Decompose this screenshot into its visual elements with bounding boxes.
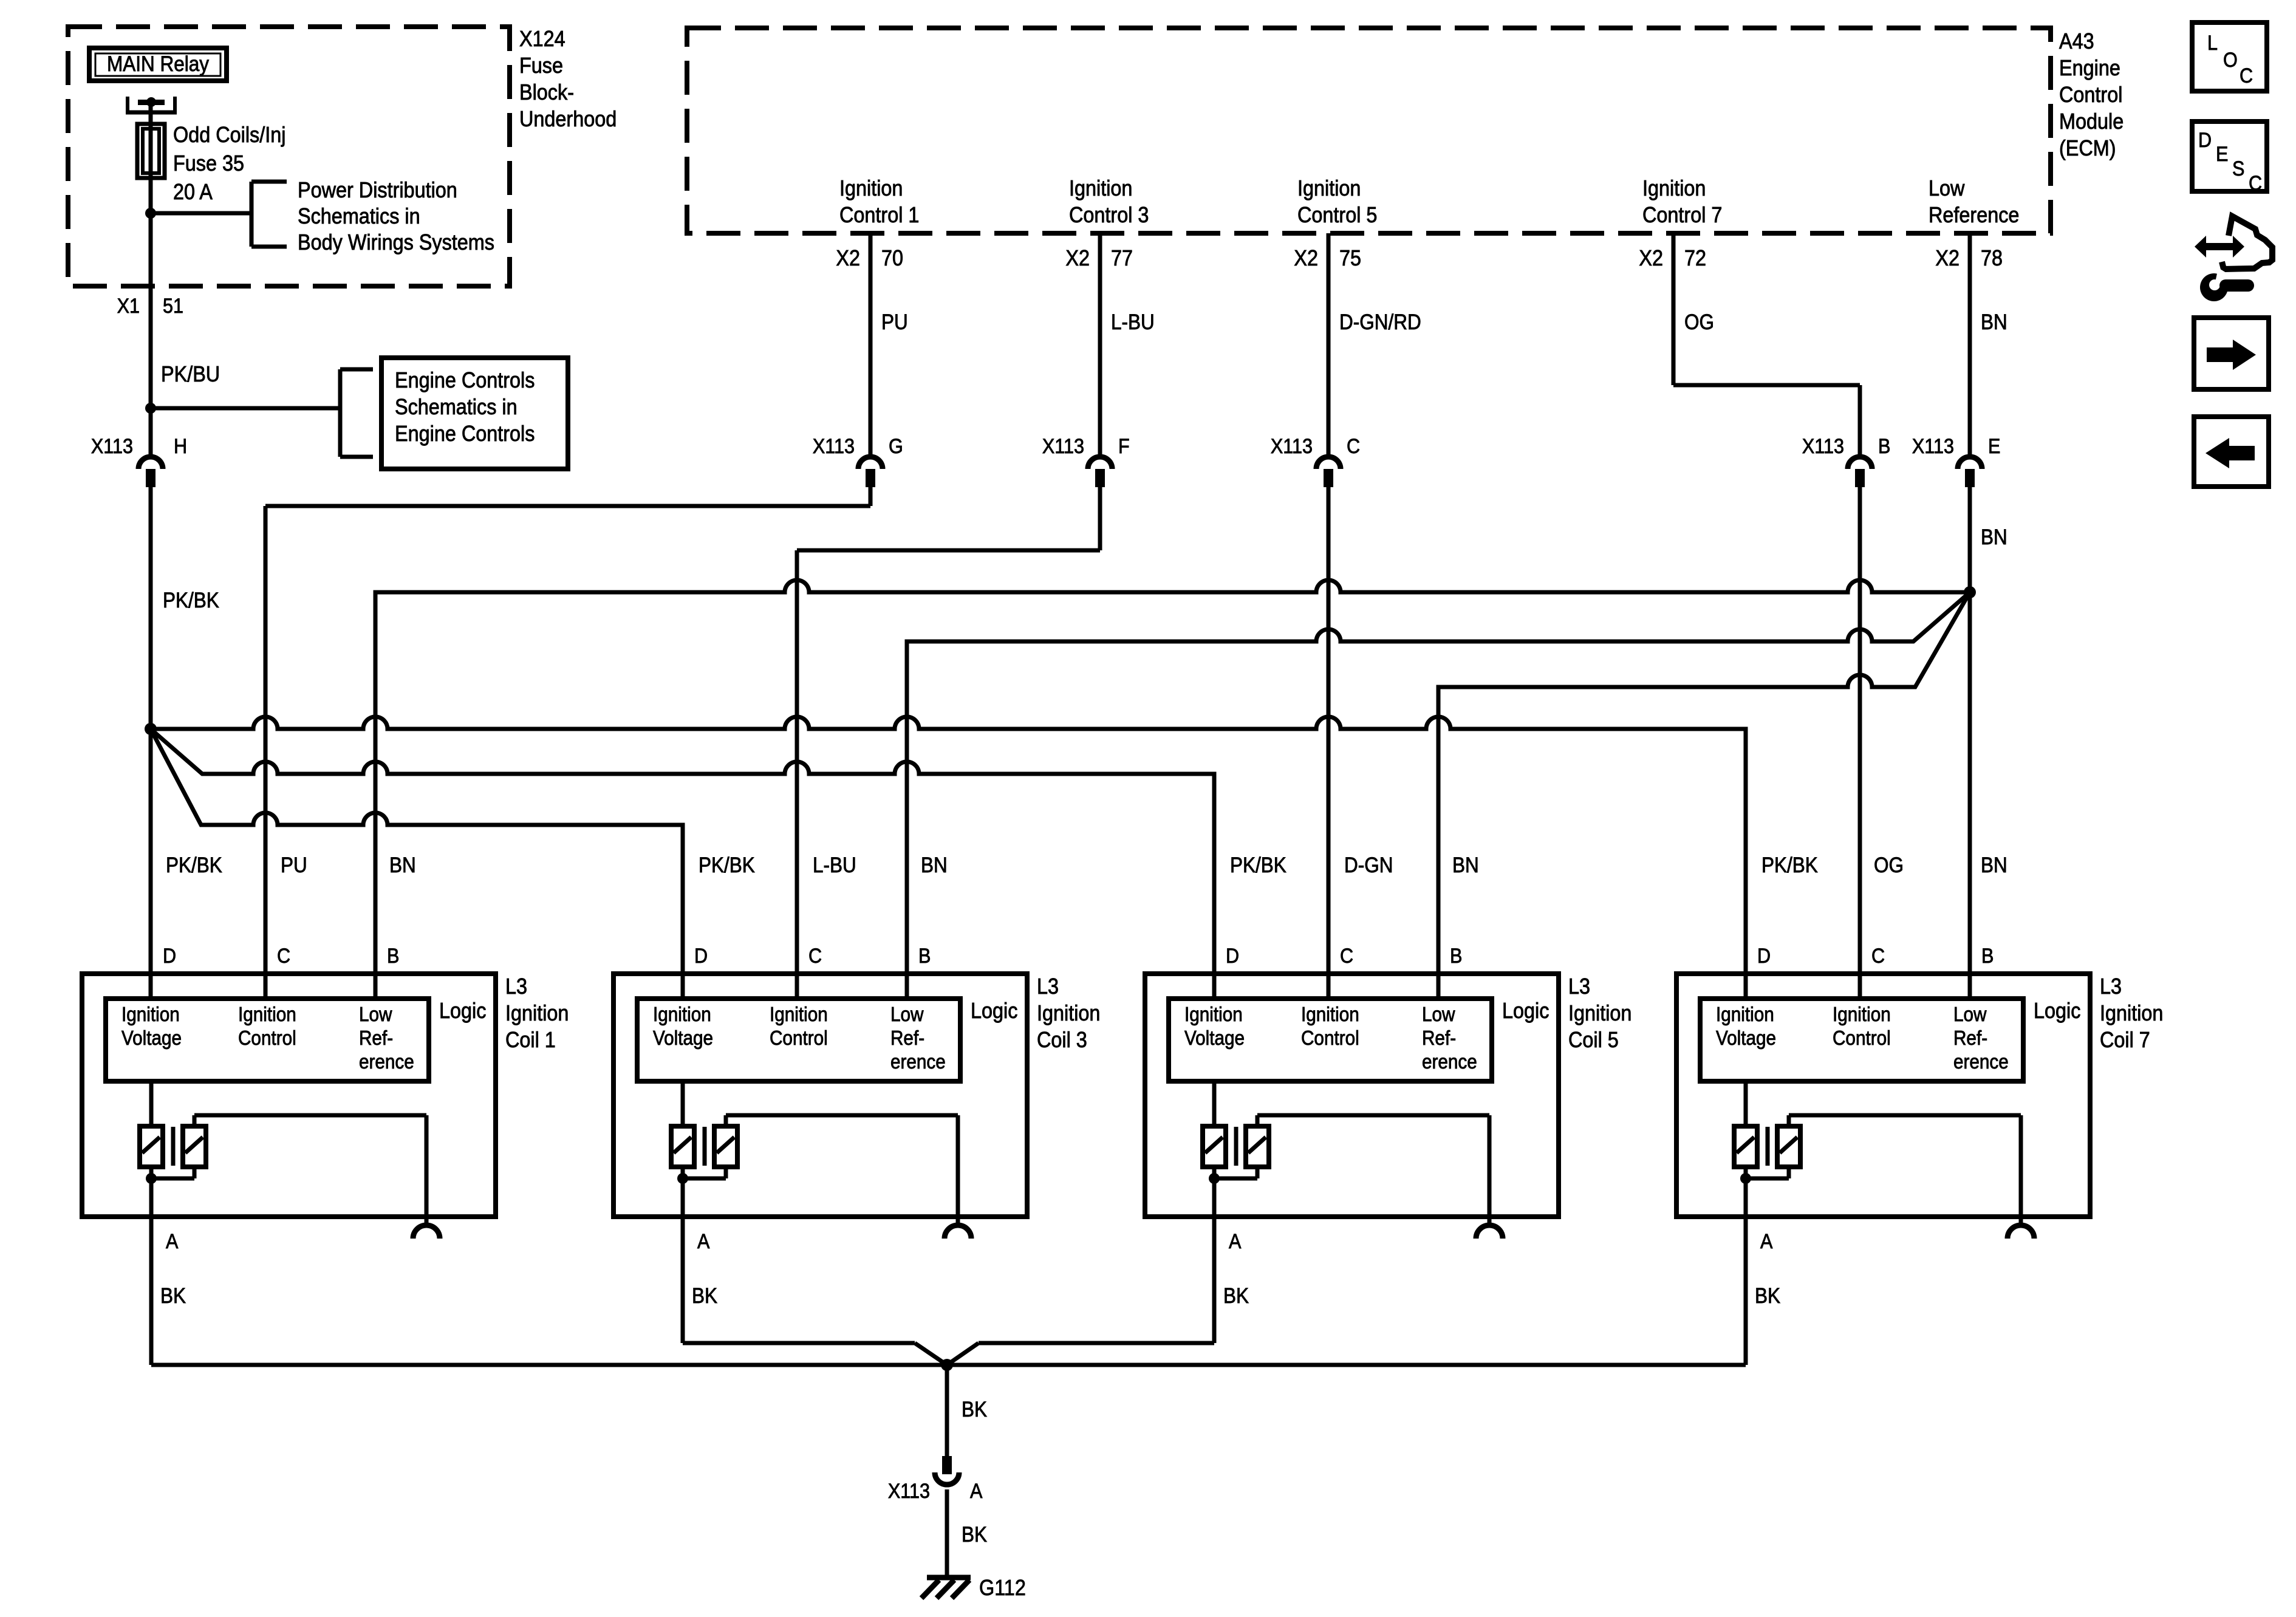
svg-text:L: L	[2207, 32, 2218, 55]
svg-text:Low: Low	[359, 1003, 392, 1026]
svg-text:PK/BK: PK/BK	[1230, 854, 1286, 878]
svg-text:Coil 3: Coil 3	[1037, 1028, 1087, 1052]
svg-text:S: S	[2232, 157, 2244, 180]
svg-text:D: D	[2198, 129, 2212, 152]
svg-text:D: D	[1226, 945, 1239, 968]
svg-text:Ref-: Ref-	[890, 1027, 924, 1050]
svg-text:BK: BK	[1223, 1285, 1249, 1308]
svg-text:O: O	[2223, 49, 2238, 72]
svg-text:Power Distribution: Power Distribution	[298, 178, 457, 202]
svg-text:C: C	[2240, 64, 2253, 87]
svg-text:erence: erence	[890, 1051, 946, 1073]
svg-text:BK: BK	[962, 1523, 987, 1547]
svg-text:Ref-: Ref-	[1953, 1027, 1987, 1050]
svg-text:E: E	[1988, 435, 2000, 458]
svg-text:X2: X2	[1935, 246, 1959, 270]
svg-text:C: C	[1347, 435, 1360, 458]
svg-text:X2: X2	[1294, 246, 1318, 270]
svg-text:D-GN/RD: D-GN/RD	[1339, 311, 1421, 335]
svg-text:Logic: Logic	[2034, 999, 2080, 1023]
svg-text:C: C	[277, 945, 290, 968]
svg-text:Low: Low	[890, 1003, 924, 1026]
svg-text:B: B	[1878, 435, 1890, 458]
svg-text:Ignition: Ignition	[1301, 1003, 1359, 1026]
svg-text:Underhood: Underhood	[519, 107, 617, 131]
svg-text:L3: L3	[1568, 974, 1590, 999]
svg-text:D: D	[694, 945, 708, 968]
svg-text:Control 3: Control 3	[1069, 203, 1149, 227]
svg-text:PU: PU	[281, 854, 307, 878]
svg-text:BK: BK	[692, 1285, 717, 1308]
svg-text:X2: X2	[1639, 246, 1663, 270]
svg-text:Voltage: Voltage	[653, 1027, 713, 1050]
svg-text:Block-: Block-	[519, 80, 574, 104]
svg-text:A43: A43	[2059, 29, 2094, 53]
svg-text:BK: BK	[160, 1285, 186, 1308]
svg-text:Voltage: Voltage	[121, 1027, 182, 1050]
svg-text:L-BU: L-BU	[1111, 311, 1155, 335]
svg-text:BN: BN	[1981, 526, 2007, 550]
svg-text:Module: Module	[2059, 109, 2123, 134]
svg-text:Ignition: Ignition	[839, 176, 903, 200]
svg-text:Ignition: Ignition	[1568, 1001, 1631, 1025]
svg-text:Ignition: Ignition	[653, 1003, 711, 1026]
svg-text:70: 70	[881, 246, 903, 270]
svg-text:Schematics in: Schematics in	[298, 204, 420, 228]
svg-text:X113: X113	[1042, 435, 1084, 458]
svg-text:B: B	[387, 945, 399, 968]
svg-text:L-BU: L-BU	[813, 854, 856, 878]
svg-text:Ignition: Ignition	[505, 1001, 569, 1025]
svg-text:Coil 7: Coil 7	[2100, 1028, 2150, 1052]
svg-text:X2: X2	[836, 246, 860, 270]
svg-text:X1: X1	[117, 295, 140, 318]
svg-text:Reference: Reference	[1929, 203, 2019, 227]
svg-text:20 A: 20 A	[173, 180, 213, 204]
svg-text:BK: BK	[962, 1398, 987, 1422]
svg-text:PK/BK: PK/BK	[166, 854, 222, 878]
svg-text:Ref-: Ref-	[1422, 1027, 1456, 1050]
svg-text:A: A	[970, 1480, 983, 1503]
svg-text:77: 77	[1111, 246, 1133, 270]
svg-text:L3: L3	[505, 974, 527, 999]
svg-text:Voltage: Voltage	[1716, 1027, 1776, 1050]
svg-text:X113: X113	[813, 435, 855, 458]
svg-text:A: A	[166, 1230, 179, 1253]
svg-text:D: D	[1757, 945, 1771, 968]
svg-text:A: A	[697, 1230, 710, 1253]
svg-text:Fuse: Fuse	[519, 53, 563, 78]
svg-text:erence: erence	[1953, 1051, 2009, 1073]
svg-text:C: C	[2249, 172, 2262, 195]
svg-text:Body Wirings Systems: Body Wirings Systems	[298, 230, 494, 255]
svg-text:Ignition: Ignition	[1833, 1003, 1891, 1026]
svg-text:BN: BN	[389, 854, 416, 878]
svg-text:PK/BK: PK/BK	[1761, 854, 1818, 878]
svg-text:erence: erence	[1422, 1051, 1477, 1073]
svg-text:Control: Control	[770, 1027, 828, 1050]
svg-text:Odd Coils/Inj: Odd Coils/Inj	[173, 123, 285, 147]
svg-text:H: H	[174, 435, 187, 458]
svg-text:PK/BK: PK/BK	[163, 589, 219, 613]
svg-text:X113: X113	[888, 1480, 930, 1503]
svg-text:Control 7: Control 7	[1642, 203, 1722, 227]
svg-text:Control: Control	[2059, 83, 2122, 107]
svg-text:G: G	[889, 435, 903, 458]
svg-text:OG: OG	[1874, 854, 1904, 878]
svg-text:Schematics in: Schematics in	[395, 395, 518, 419]
svg-text:72: 72	[1684, 246, 1706, 270]
svg-text:Logic: Logic	[1502, 999, 1549, 1023]
svg-text:L3: L3	[2100, 974, 2122, 999]
svg-text:75: 75	[1339, 246, 1361, 270]
svg-text:erence: erence	[359, 1051, 414, 1073]
svg-text:Control: Control	[1301, 1027, 1359, 1050]
svg-text:Engine: Engine	[2059, 56, 2120, 80]
svg-text:BN: BN	[1981, 854, 2007, 878]
svg-text:X113: X113	[1271, 435, 1313, 458]
svg-text:BN: BN	[921, 854, 948, 878]
svg-text:X124: X124	[519, 27, 565, 51]
svg-text:OG: OG	[1684, 311, 1714, 335]
svg-text:C: C	[1871, 945, 1885, 968]
svg-text:C: C	[808, 945, 822, 968]
svg-text:B: B	[918, 945, 931, 968]
svg-text:Ignition: Ignition	[1184, 1003, 1243, 1026]
svg-text:A: A	[1760, 1230, 1773, 1253]
svg-text:C: C	[1340, 945, 1353, 968]
svg-text:Control 5: Control 5	[1297, 203, 1377, 227]
svg-text:Control 1: Control 1	[839, 203, 919, 227]
svg-text:Logic: Logic	[439, 999, 486, 1023]
svg-text:PK/BU: PK/BU	[161, 362, 220, 386]
svg-text:F: F	[1118, 435, 1130, 458]
svg-text:Ref-: Ref-	[359, 1027, 393, 1050]
svg-text:Ignition: Ignition	[1642, 176, 1706, 200]
svg-text:L3: L3	[1037, 974, 1059, 999]
svg-text:Ignition: Ignition	[1069, 176, 1132, 200]
svg-text:Coil 1: Coil 1	[505, 1028, 556, 1052]
svg-text:D-GN: D-GN	[1344, 854, 1393, 878]
svg-text:78: 78	[1981, 246, 2003, 270]
svg-text:Coil 5: Coil 5	[1568, 1028, 1619, 1052]
svg-text:Voltage: Voltage	[1184, 1027, 1245, 1050]
svg-text:MAIN Relay: MAIN Relay	[107, 53, 209, 77]
svg-text:Ignition: Ignition	[2100, 1001, 2163, 1025]
svg-text:Ignition: Ignition	[1297, 176, 1361, 200]
svg-text:Ignition: Ignition	[238, 1003, 296, 1026]
svg-text:Fuse 35: Fuse 35	[173, 151, 244, 176]
svg-text:PU: PU	[881, 311, 908, 335]
svg-text:Control: Control	[238, 1027, 296, 1050]
svg-text:Ignition: Ignition	[770, 1003, 828, 1026]
svg-text:Low: Low	[1929, 176, 1965, 200]
svg-text:Logic: Logic	[971, 999, 1017, 1023]
svg-text:X2: X2	[1065, 246, 1090, 270]
svg-text:BK: BK	[1755, 1285, 1780, 1308]
svg-text:G112: G112	[979, 1576, 1026, 1600]
svg-text:X113: X113	[91, 435, 133, 458]
svg-text:Ignition: Ignition	[1037, 1001, 1100, 1025]
svg-text:Low: Low	[1953, 1003, 1987, 1026]
svg-text:(ECM): (ECM)	[2059, 136, 2116, 160]
svg-text:X113: X113	[1912, 435, 1954, 458]
svg-text:Engine Controls: Engine Controls	[395, 368, 535, 392]
svg-text:Ignition: Ignition	[121, 1003, 180, 1026]
svg-text:E: E	[2216, 143, 2228, 166]
svg-text:BN: BN	[1452, 854, 1479, 878]
svg-text:Low: Low	[1422, 1003, 1455, 1026]
svg-text:A: A	[1229, 1230, 1242, 1253]
svg-text:Engine Controls: Engine Controls	[395, 422, 535, 446]
svg-text:PK/BK: PK/BK	[699, 854, 755, 878]
svg-text:B: B	[1450, 945, 1462, 968]
svg-text:BN: BN	[1981, 311, 2007, 335]
svg-text:Control: Control	[1833, 1027, 1891, 1050]
svg-text:51: 51	[163, 295, 183, 318]
svg-text:B: B	[1981, 945, 1994, 968]
svg-text:X113: X113	[1802, 435, 1844, 458]
svg-text:D: D	[163, 945, 176, 968]
svg-text:Ignition: Ignition	[1716, 1003, 1774, 1026]
